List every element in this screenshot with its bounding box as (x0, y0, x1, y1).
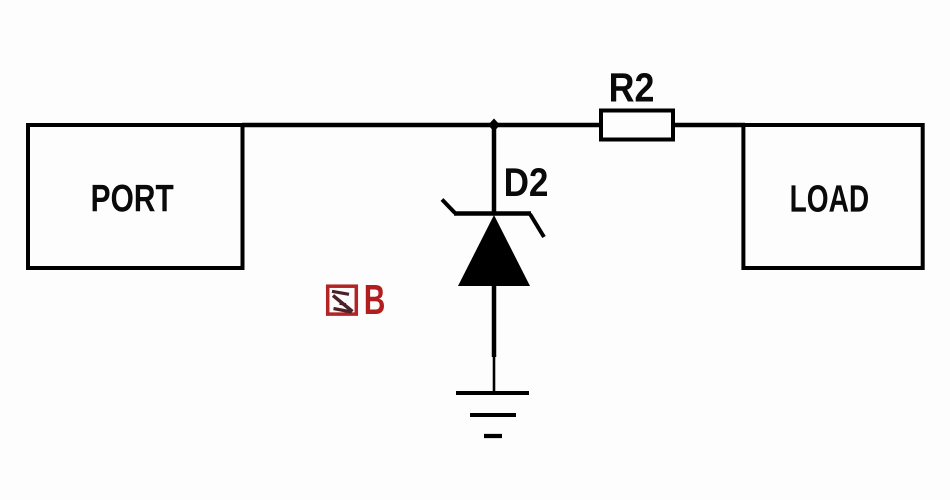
label R2 (611, 73, 653, 102)
label D2 (506, 168, 547, 196)
ground bar 1 (456, 391, 529, 395)
ground bar 2 (470, 413, 516, 417)
junction node (dot) (488, 119, 500, 132)
wire to ground (lower thin part) (493, 352, 496, 393)
label PORT (93, 185, 174, 212)
diode D2 (TVS / zener) (442, 200, 544, 287)
图 inner bottom stroke (334, 309, 352, 313)
anode triangle (458, 215, 530, 286)
图 inner stroke main diagonal (333, 296, 353, 312)
wire D2 anode down (upper thick part) (492, 284, 497, 357)
cathode bar (454, 211, 531, 216)
图 inner stroke top (332, 291, 349, 294)
图 inner dash (340, 304, 347, 305)
figure label 图B (328, 285, 384, 314)
block LOAD (743, 125, 922, 268)
图 outer box (328, 286, 357, 314)
wire PORT to junction node (242, 123, 494, 128)
ground (456, 393, 529, 436)
wire resistor R2 to LOAD (673, 123, 745, 128)
cathode right tick (530, 214, 544, 237)
wire junction node down to D2 cathode (492, 125, 497, 214)
ground bar 3 (484, 434, 502, 438)
label LOAD (792, 185, 869, 212)
cathode left tick (442, 200, 455, 214)
resistor R2 (601, 111, 673, 140)
letter B (366, 285, 384, 314)
wire junction node to resistor R2 (494, 123, 601, 128)
block PORT (28, 125, 243, 268)
